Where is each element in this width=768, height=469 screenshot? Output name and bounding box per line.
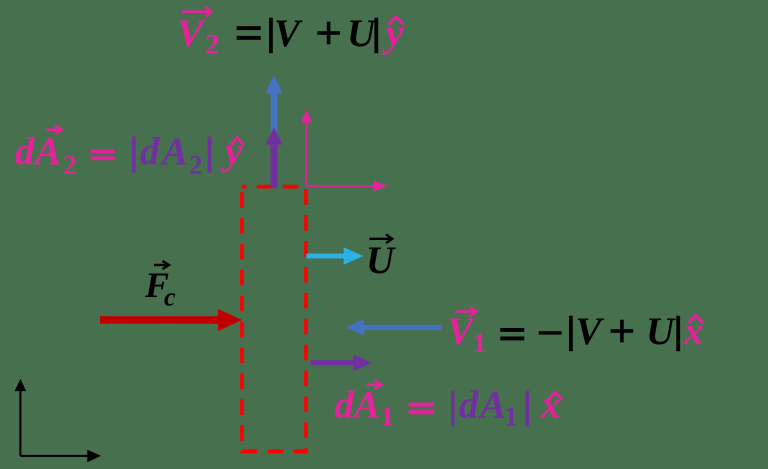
bar (208, 137, 212, 173)
plus sign (611, 320, 634, 343)
plus sign (317, 22, 340, 45)
svg-text:V: V (447, 310, 476, 353)
magenta axes at top-right corner of control volume (301, 110, 387, 192)
svg-text:d: d (15, 130, 35, 173)
svg-text:2: 2 (189, 150, 203, 180)
equals sign (black) (500, 328, 524, 340)
svg-text:c: c (164, 283, 176, 312)
magenta y-axis (306, 122, 308, 186)
svg-text:V: V (177, 12, 206, 55)
label V1 equation (447, 307, 704, 358)
vector arrow over F (154, 261, 169, 269)
hat over y (T1) (389, 17, 404, 25)
arrow U (cyan, right) (306, 247, 363, 265)
equals sign (magenta) (91, 149, 115, 160)
svg-text:2: 2 (63, 150, 77, 180)
svg-text:d: d (459, 384, 479, 427)
svg-text:d: d (140, 130, 160, 173)
svg-text:A: A (159, 130, 188, 173)
bar (374, 18, 378, 53)
label dA2 equation (15, 125, 244, 180)
black coordinate axes bottom-left (15, 379, 101, 462)
label U vector (366, 235, 396, 283)
svg-text:A: A (32, 130, 61, 173)
bar (569, 316, 573, 351)
bar (526, 391, 530, 427)
hat over y (T2) (231, 138, 244, 145)
svg-text:A: A (477, 384, 506, 427)
bar (676, 316, 680, 351)
bar (132, 137, 136, 173)
equals sign (black) (237, 26, 261, 40)
equals sign (magenta) (409, 403, 434, 415)
vector arrow over A (dA1) (366, 380, 381, 389)
hat over x (T5) (548, 392, 562, 400)
svg-text:U: U (646, 310, 676, 353)
label V2 equation (177, 7, 404, 61)
svg-text:V: V (274, 12, 303, 55)
svg-text:1: 1 (381, 402, 395, 432)
control volume dashed rectangle (242, 187, 306, 452)
svg-text:1: 1 (504, 402, 518, 432)
minus sign (539, 331, 562, 334)
bar (451, 391, 455, 427)
svg-text:x: x (540, 384, 561, 427)
svg-text:1: 1 (473, 328, 487, 358)
magenta x-axis (307, 185, 375, 187)
label dA1 equation (335, 380, 562, 431)
vector arrow over V1 (455, 307, 476, 316)
svg-text:U: U (366, 239, 396, 282)
arrow V2 (blue, up) (266, 75, 283, 188)
bar (269, 18, 273, 53)
svg-text:y: y (221, 130, 243, 173)
vector arrow over A (dA2) (47, 125, 62, 134)
vector arrow over U (370, 235, 393, 244)
label Fc (144, 261, 176, 312)
arrow V1 (blue, left) (346, 319, 442, 336)
svg-text:U: U (347, 12, 377, 55)
arrow dA1 (purple, right) (310, 354, 372, 371)
svg-text:V: V (576, 310, 605, 353)
svg-text:d: d (335, 384, 355, 427)
arrow Fc (dark red, right) (100, 309, 242, 331)
arrow dA2 (purple, up) (266, 127, 283, 188)
vector arrow over V2 (182, 7, 212, 16)
hat over x (T4) (689, 315, 703, 323)
svg-text:2: 2 (205, 29, 220, 61)
